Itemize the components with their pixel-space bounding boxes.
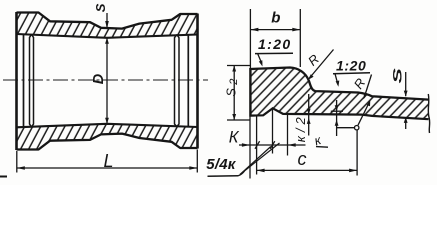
svg-text:К: К (229, 129, 240, 147)
svg-text:R: R (351, 75, 369, 91)
svg-text:S: S (390, 68, 404, 83)
svg-text:b: b (271, 9, 280, 26)
svg-text:L: L (104, 151, 114, 171)
svg-text:1:20: 1:20 (336, 57, 366, 73)
svg-text:S: S (93, 3, 108, 12)
svg-text:к/2: к/2 (293, 113, 308, 142)
svg-text:2: 2 (228, 79, 240, 86)
svg-text:S: S (224, 88, 238, 97)
svg-text:c: c (298, 149, 307, 169)
svg-text:5/4к: 5/4к (206, 156, 236, 173)
svg-text:1:20: 1:20 (258, 36, 292, 52)
svg-text:к: к (312, 132, 323, 148)
svg-text:D: D (91, 73, 107, 84)
